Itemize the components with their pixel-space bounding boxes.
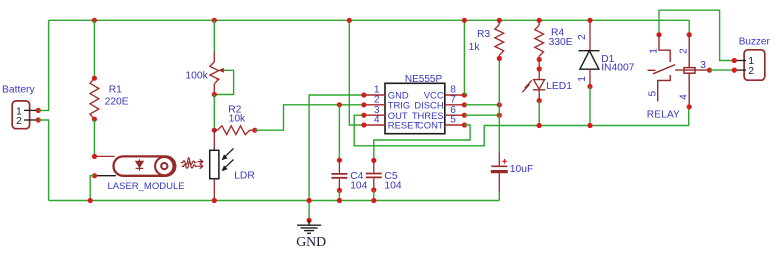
LED1 emission arrows: [522, 80, 532, 92]
node LED out junction: [537, 123, 542, 128]
wire relay pin2 to rail: [688, 20, 690, 34]
node LED top pin: [537, 66, 542, 71]
node gnd rail junction: [307, 198, 312, 203]
svg-text:NE555P: NE555P: [405, 74, 443, 85]
LDR bottom lead: [213, 179, 215, 201]
svg-text:LED1: LED1: [546, 81, 572, 92]
svg-text:2: 2: [577, 34, 588, 40]
node pin4 dot: [361, 122, 366, 127]
LED LED1 symbol: [533, 80, 545, 101]
resistor R2: [214, 129, 217, 131]
svg-text:4: 4: [679, 94, 690, 100]
laser module lens inner circle: [161, 163, 167, 169]
node C5 ground junction: [371, 198, 376, 203]
svg-text:RESET: RESET: [388, 120, 420, 131]
svg-text:5: 5: [450, 115, 456, 126]
battery pin 1 junction: [36, 108, 41, 113]
node R1 top pin: [92, 76, 97, 81]
laser beam arrow bottom: [198, 164, 204, 169]
relay NO contact bracket pin5: [658, 75, 671, 102]
svg-text:Battery: Battery: [2, 85, 35, 96]
LDR light arrow 1: [224, 149, 233, 158]
svg-text:100k: 100k: [185, 71, 208, 82]
wire 10uF to ground rail: [498, 192, 500, 201]
wire CONT pin5 to C5: [374, 125, 470, 160]
node relay pin4: [687, 104, 692, 109]
wire pin6 junction line: [464, 114, 499, 116]
svg-text:LASER_MODULE: LASER_MODULE: [108, 181, 185, 192]
wire GND pin1 to ground rail: [309, 95, 364, 220]
relay coil wire pin4: [688, 74, 690, 107]
D1 cathode lead: [589, 20, 591, 50]
pin 1 stub: [364, 94, 385, 96]
wire TRIG line to C4: [338, 105, 340, 160]
node pin7 dot: [462, 102, 467, 107]
svg-text:104: 104: [384, 180, 401, 191]
battery pin 1 stub: [24, 109, 38, 111]
laser module LM1 body: [114, 156, 176, 175]
node R3 bottom: [497, 56, 502, 61]
svg-text:104: 104: [350, 180, 367, 191]
wire LED to OUT line: [538, 101, 540, 126]
node relay pin2: [687, 32, 692, 37]
svg-text:220E: 220E: [105, 97, 129, 108]
node D1 anode pin: [587, 84, 592, 89]
wire R1 to laser module: [93, 119, 95, 156]
wire top power rail: [49, 19, 690, 21]
relay coil wire pin2: [688, 35, 690, 68]
svg-text:R1: R1: [109, 84, 122, 95]
wire C4 to ground rail: [338, 190, 340, 200]
LDR body: [210, 150, 219, 178]
laser beam arrow top: [198, 159, 204, 164]
wire D1 to OUT line: [589, 87, 591, 126]
wire RESET pin4 to rail: [349, 20, 364, 125]
buzzer pin 1 stub: [734, 60, 746, 62]
wire relay pin1 bypass to buzzer: [659, 10, 734, 60]
relay K1 NC contact bracket: [659, 35, 670, 62]
wire R3/disch/thres to 10uF: [498, 58, 500, 152]
node LDR ground junction: [212, 198, 217, 203]
resistor R3: [498, 20, 500, 24]
LDR top lead: [213, 130, 215, 150]
pin 7 stub: [445, 104, 465, 106]
svg-text:10uF: 10uF: [510, 164, 533, 175]
node pin1 dot: [361, 92, 366, 97]
D1 anode lead: [589, 69, 591, 86]
svg-text:3: 3: [700, 60, 706, 71]
node ground symbol junction: [307, 218, 312, 223]
node LED bottom pin: [537, 98, 542, 103]
node D1 out junction: [587, 123, 592, 128]
IC U1 NE555P body: [385, 83, 445, 133]
svg-text:Buzzer: Buzzer: [739, 36, 771, 47]
node relay pin3: [707, 68, 712, 73]
node R4 top on rail: [537, 18, 542, 23]
pin 2 stub: [364, 104, 385, 106]
svg-text:1: 1: [648, 48, 659, 54]
svg-text:2: 2: [374, 94, 380, 105]
node R2 left: [212, 128, 217, 133]
pin 6 stub: [445, 114, 465, 116]
relay armature: [648, 65, 676, 74]
node C5 top pin: [371, 158, 376, 163]
wire pin7 to R3 bottom: [464, 104, 499, 106]
node R4 bottom: [537, 57, 542, 62]
svg-text:LDR: LDR: [234, 171, 255, 182]
node laser module pin-: [92, 173, 97, 178]
node laser ground junction: [88, 198, 93, 203]
svg-text:2: 2: [748, 65, 754, 77]
resistor R4: [538, 20, 540, 25]
node D1 top on rail: [587, 18, 592, 23]
node C4 top pin: [337, 158, 342, 163]
node R3 top on rail: [497, 18, 502, 23]
node pin6 dot: [462, 113, 467, 118]
laser module internal LED symbol: [136, 159, 144, 170]
node pin5 dot: [462, 122, 467, 127]
relay coil box: [684, 68, 695, 74]
node R1 top on rail: [92, 18, 97, 23]
node pin8 dot: [462, 92, 467, 97]
relay common wire pin3: [675, 69, 709, 71]
capacitor C6 10uF: [491, 152, 508, 191]
node reset rail junction: [347, 18, 352, 23]
potentiometer dot mark: [217, 78, 220, 81]
buzzer pin 2 stub: [734, 69, 746, 71]
buzzer pin 1 junction: [732, 58, 737, 63]
node thres junction: [497, 113, 502, 118]
wire laser module to ground rail: [90, 176, 94, 201]
svg-text:2: 2: [16, 115, 22, 127]
potentiometer wiper arrow: [223, 69, 227, 71]
pin 3 stub: [364, 114, 385, 116]
laser beam squiggle top: [181, 158, 197, 165]
node laser module pin+: [92, 154, 97, 159]
svg-text:1k: 1k: [469, 42, 481, 53]
svg-text:4: 4: [374, 115, 380, 126]
ground symbol: [297, 220, 321, 233]
R4 to LED lead: [538, 59, 540, 79]
node pot bottom junction: [212, 92, 217, 97]
node relay pin1: [656, 32, 661, 37]
laser module pin - lead: [95, 175, 117, 177]
node C5 bottom pin: [371, 187, 376, 192]
svg-text:330E: 330E: [549, 37, 573, 48]
capacitor C5: [366, 160, 382, 190]
laser beam squiggle bottom: [182, 161, 198, 168]
node pot top on rail: [212, 18, 217, 23]
laser module lens outer circle: [155, 157, 173, 175]
node disch junction: [497, 102, 502, 107]
battery pin 2 stub: [24, 119, 38, 121]
wire battery+ to top rail: [38, 20, 48, 110]
svg-text:IN4007: IN4007: [601, 63, 634, 74]
svg-text:R3: R3: [477, 29, 490, 40]
svg-text:DISCH: DISCH: [414, 99, 443, 110]
buzzer pin 2 junction: [732, 68, 737, 73]
pin 5 stub: [445, 124, 465, 126]
battery pin 2 junction: [36, 117, 41, 122]
svg-text:2: 2: [679, 48, 690, 54]
potentiometer RV1 100k: [213, 52, 215, 62]
diode D1 symbol: [579, 51, 600, 70]
wire pot to R2/LDR node: [213, 95, 215, 131]
wire battery- to ground rail: [38, 120, 48, 201]
svg-text:RELAY: RELAY: [647, 109, 680, 120]
wire C5 to ground rail: [373, 190, 375, 201]
node C4 bottom pin: [337, 188, 342, 193]
node pin3 dot: [361, 113, 366, 118]
wire OUT pin3 route: [354, 107, 689, 146]
wire rail to R1: [93, 20, 95, 78]
pin 8 stub: [445, 94, 465, 96]
svg-text:GND: GND: [296, 234, 326, 249]
node pin2 dot: [361, 102, 366, 107]
node C4 ground junction: [337, 198, 342, 203]
wire ground rail: [49, 200, 500, 202]
svg-text:1: 1: [577, 76, 588, 82]
svg-text:10k: 10k: [229, 113, 246, 124]
laser module pin + lead: [95, 155, 115, 157]
resistor R1: [90, 78, 99, 119]
node C4 top junction on TRIG line: [337, 102, 342, 107]
wire rail to pot: [213, 20, 215, 51]
svg-text:7: 7: [450, 94, 456, 105]
battery connector J1 body: [12, 101, 29, 129]
LDR light arrow 2: [224, 160, 233, 169]
node R1 bottom pin: [92, 117, 97, 122]
wire VCC pin8 to rail: [463, 20, 465, 95]
capacitor C4: [331, 160, 347, 190]
svg-text:CONT: CONT: [417, 120, 444, 131]
buzzer connector body: [744, 50, 765, 80]
capacitor 10uF plus sign: [502, 159, 507, 164]
pin 4 stub: [364, 124, 385, 126]
node R2 right: [252, 128, 257, 133]
svg-text:TRIG: TRIG: [388, 99, 410, 110]
wire pot wiper to bottom: [214, 70, 233, 94]
wire R2 to TRIG: [255, 105, 364, 130]
wire relay pin3 to buzzer pin2: [710, 69, 735, 71]
node vcc rail junction: [462, 18, 467, 23]
